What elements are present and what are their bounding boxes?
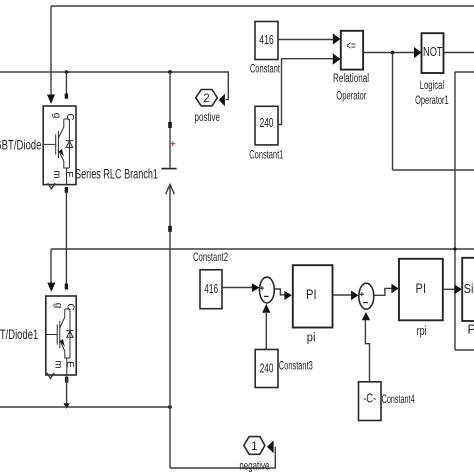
svg-text:m: m xyxy=(51,170,62,178)
svg-text:Operator1: Operator1 xyxy=(415,93,449,107)
svg-text:negative: negative xyxy=(239,458,269,472)
svg-text:2: 2 xyxy=(203,93,209,105)
svg-text:E: E xyxy=(63,171,74,178)
svg-text:g: g xyxy=(51,113,62,119)
svg-text:pi: pi xyxy=(307,330,316,344)
svg-text:m: m xyxy=(52,360,63,368)
svg-text:Constant3: Constant3 xyxy=(279,358,313,372)
svg-text:<=: <= xyxy=(346,41,356,53)
svg-text:Constant4: Constant4 xyxy=(382,392,415,406)
svg-text:PI: PI xyxy=(416,280,427,296)
svg-text:Constant2: Constant2 xyxy=(193,250,228,264)
svg-text:C: C xyxy=(64,113,75,120)
svg-text:IGBT/Diode: IGBT/Diode xyxy=(0,137,41,152)
svg-text:rpi: rpi xyxy=(417,324,427,338)
svg-text:Constant: Constant xyxy=(250,62,280,76)
svg-text:C: C xyxy=(64,303,75,310)
svg-text:416: 416 xyxy=(204,282,218,296)
svg-text:Series RLC Branch1: Series RLC Branch1 xyxy=(75,167,158,182)
svg-text:240: 240 xyxy=(260,361,274,375)
svg-text:Sig: Sig xyxy=(464,282,474,296)
svg-text:NOT: NOT xyxy=(423,45,443,59)
svg-text:240: 240 xyxy=(260,116,274,130)
svg-text:Operator: Operator xyxy=(336,89,366,103)
svg-text:1: 1 xyxy=(251,441,257,453)
svg-text:-C-: -C- xyxy=(363,392,376,406)
svg-text:PI: PI xyxy=(306,286,317,302)
svg-text:Relational: Relational xyxy=(333,71,369,85)
svg-text:416: 416 xyxy=(259,33,274,47)
svg-text:Logical: Logical xyxy=(420,78,444,92)
svg-text:g: g xyxy=(52,303,63,309)
svg-text:postive: postive xyxy=(195,110,221,124)
svg-text:Constant1: Constant1 xyxy=(249,148,283,162)
svg-text:IGBT/Diode1: IGBT/Diode1 xyxy=(0,327,38,342)
svg-text:PW: PW xyxy=(468,323,474,337)
svg-text:E: E xyxy=(64,361,75,368)
